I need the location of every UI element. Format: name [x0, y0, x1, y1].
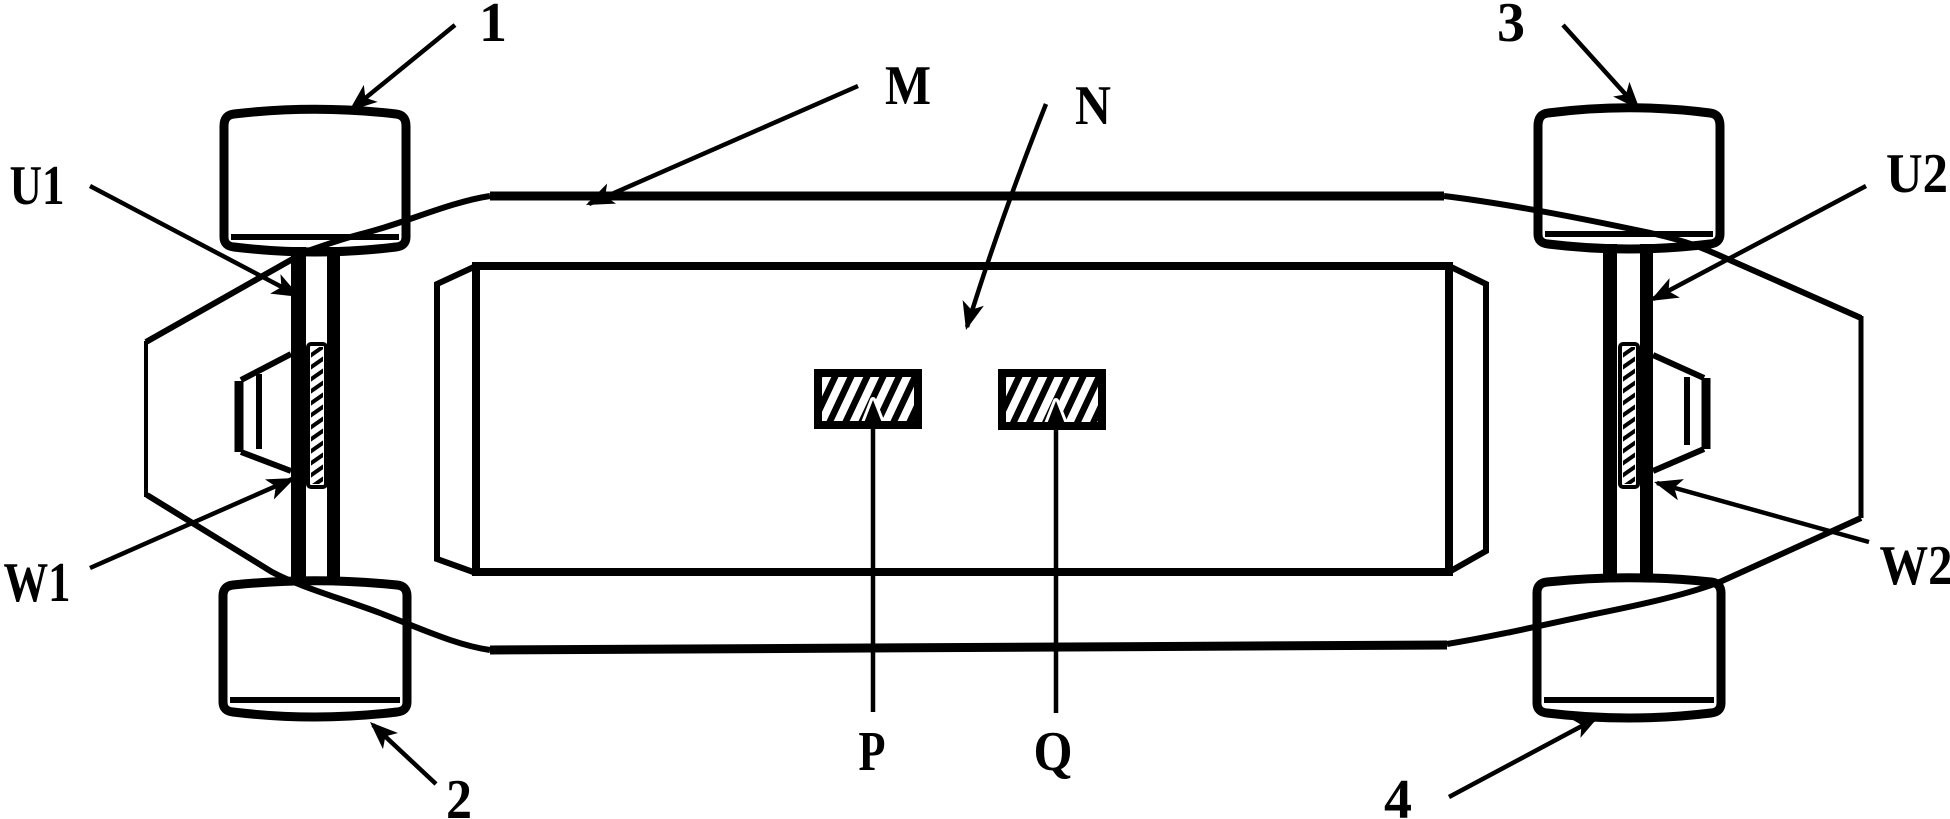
sensor Q hatched box — [976, 364, 1137, 434]
right axle bar (inner) — [1603, 244, 1617, 578]
leader line U2 — [1645, 186, 1866, 311]
leader line W1 — [90, 468, 299, 568]
svg-text:U2: U2 — [1886, 143, 1948, 205]
deck M outline — [146, 196, 1861, 650]
leader line 3 — [1563, 25, 1648, 117]
right axle bar (outer) — [1640, 244, 1653, 578]
leader line Q — [1045, 401, 1067, 713]
leader line M — [582, 86, 858, 215]
leader line 2 — [362, 714, 436, 784]
wheel 4 (bottom-right) — [1537, 578, 1721, 718]
wheel 2 (bottom-left) — [223, 581, 407, 717]
leader line P — [862, 400, 884, 712]
svg-text:U1: U1 — [10, 155, 65, 217]
left truck cone — [239, 354, 291, 471]
leader line U1 — [90, 186, 305, 307]
svg-text:M: M — [885, 55, 931, 117]
left axle bar (outer) — [291, 247, 306, 583]
svg-text:1: 1 — [479, 0, 507, 54]
svg-text:4: 4 — [1384, 769, 1412, 819]
sensor P hatched box — [792, 364, 953, 434]
svg-text:P: P — [859, 721, 886, 783]
svg-text:W1: W1 — [4, 552, 71, 614]
leader line 4 — [1449, 705, 1605, 797]
battery box N right side panel — [1449, 266, 1486, 572]
right sensor strip U2/W2 hatched — [1616, 342, 1642, 504]
left sensor strip U1/W1 hatched — [304, 342, 330, 504]
leader line 1 — [342, 25, 455, 120]
right truck cone — [1653, 355, 1706, 471]
leader line W2 — [1651, 471, 1869, 542]
left axle bar (inner) — [327, 247, 340, 583]
svg-text:2: 2 — [446, 769, 472, 819]
svg-text:W2: W2 — [1880, 535, 1950, 597]
svg-text:N: N — [1075, 75, 1111, 137]
wheel 3 (top-right) — [1538, 108, 1720, 249]
leader line N — [955, 104, 1046, 333]
wheel 1 (top-left) — [224, 109, 406, 252]
battery box N left side panel — [437, 266, 476, 573]
battery box N front face — [476, 266, 1449, 572]
svg-text:3: 3 — [1497, 0, 1525, 54]
svg-text:Q: Q — [1034, 721, 1073, 783]
